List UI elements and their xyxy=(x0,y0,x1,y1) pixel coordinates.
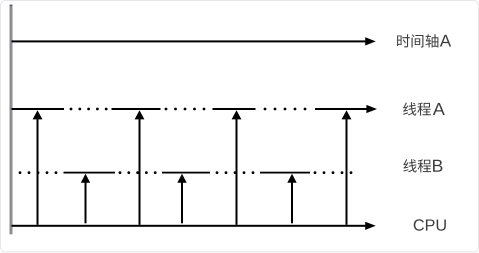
label: 时间轴A xyxy=(397,34,451,47)
long up-arrow 1 (CPU to thread A) at x=37.5 xyxy=(33,110,43,225)
arrowhead: thread A xyxy=(366,105,377,113)
short up-arrow 1 (CPU to thread B) at x=85.5 xyxy=(81,174,90,224)
label: 线程B xyxy=(403,159,442,172)
dotted segment 3 of thread B xyxy=(314,171,353,174)
bottom edge band xyxy=(2,251,477,253)
wire: CPU horizontal line xyxy=(12,225,368,227)
wire: thread B line solid segment 2 xyxy=(162,172,210,174)
wire: thread A line solid segment 1 xyxy=(12,108,65,110)
wire: thread B line solid segment 1 xyxy=(64,172,116,174)
arrowhead: CPU line xyxy=(365,222,376,230)
label: CPU xyxy=(414,219,446,230)
wire: thread A line solid segment 4 xyxy=(315,108,368,110)
arrowhead: time axis A xyxy=(365,37,376,45)
label: 线程A xyxy=(403,102,445,115)
long up-arrow 2 (CPU to thread A) at x=139.5 xyxy=(135,110,145,225)
dotted segment 1 of thread A xyxy=(70,108,108,111)
dotted segment 2 of thread A xyxy=(165,108,206,111)
short up-arrow 3 (CPU to thread B) at x=292 xyxy=(287,174,296,224)
dotted segment 2 of thread B xyxy=(216,171,255,174)
dotted segment 1 of thread B xyxy=(119,171,157,174)
wire: time axis A horizontal line xyxy=(12,40,368,42)
long up-arrow 3 (CPU to thread A) at x=236.5 xyxy=(232,110,242,225)
long up-arrow 4 (CPU to thread A) at x=346.5 xyxy=(342,110,352,225)
vertical axis bar (left) xyxy=(10,6,13,235)
wire: thread A line solid segment 3 xyxy=(213,108,256,110)
wire: thread A line solid segment 2 xyxy=(112,108,161,110)
dotted segment 3 of thread A xyxy=(264,108,307,111)
dotted segment 0 of thread B xyxy=(19,171,58,174)
short up-arrow 2 (CPU to thread B) at x=182 xyxy=(177,174,186,224)
wire: thread B line solid segment 3 xyxy=(260,172,310,174)
